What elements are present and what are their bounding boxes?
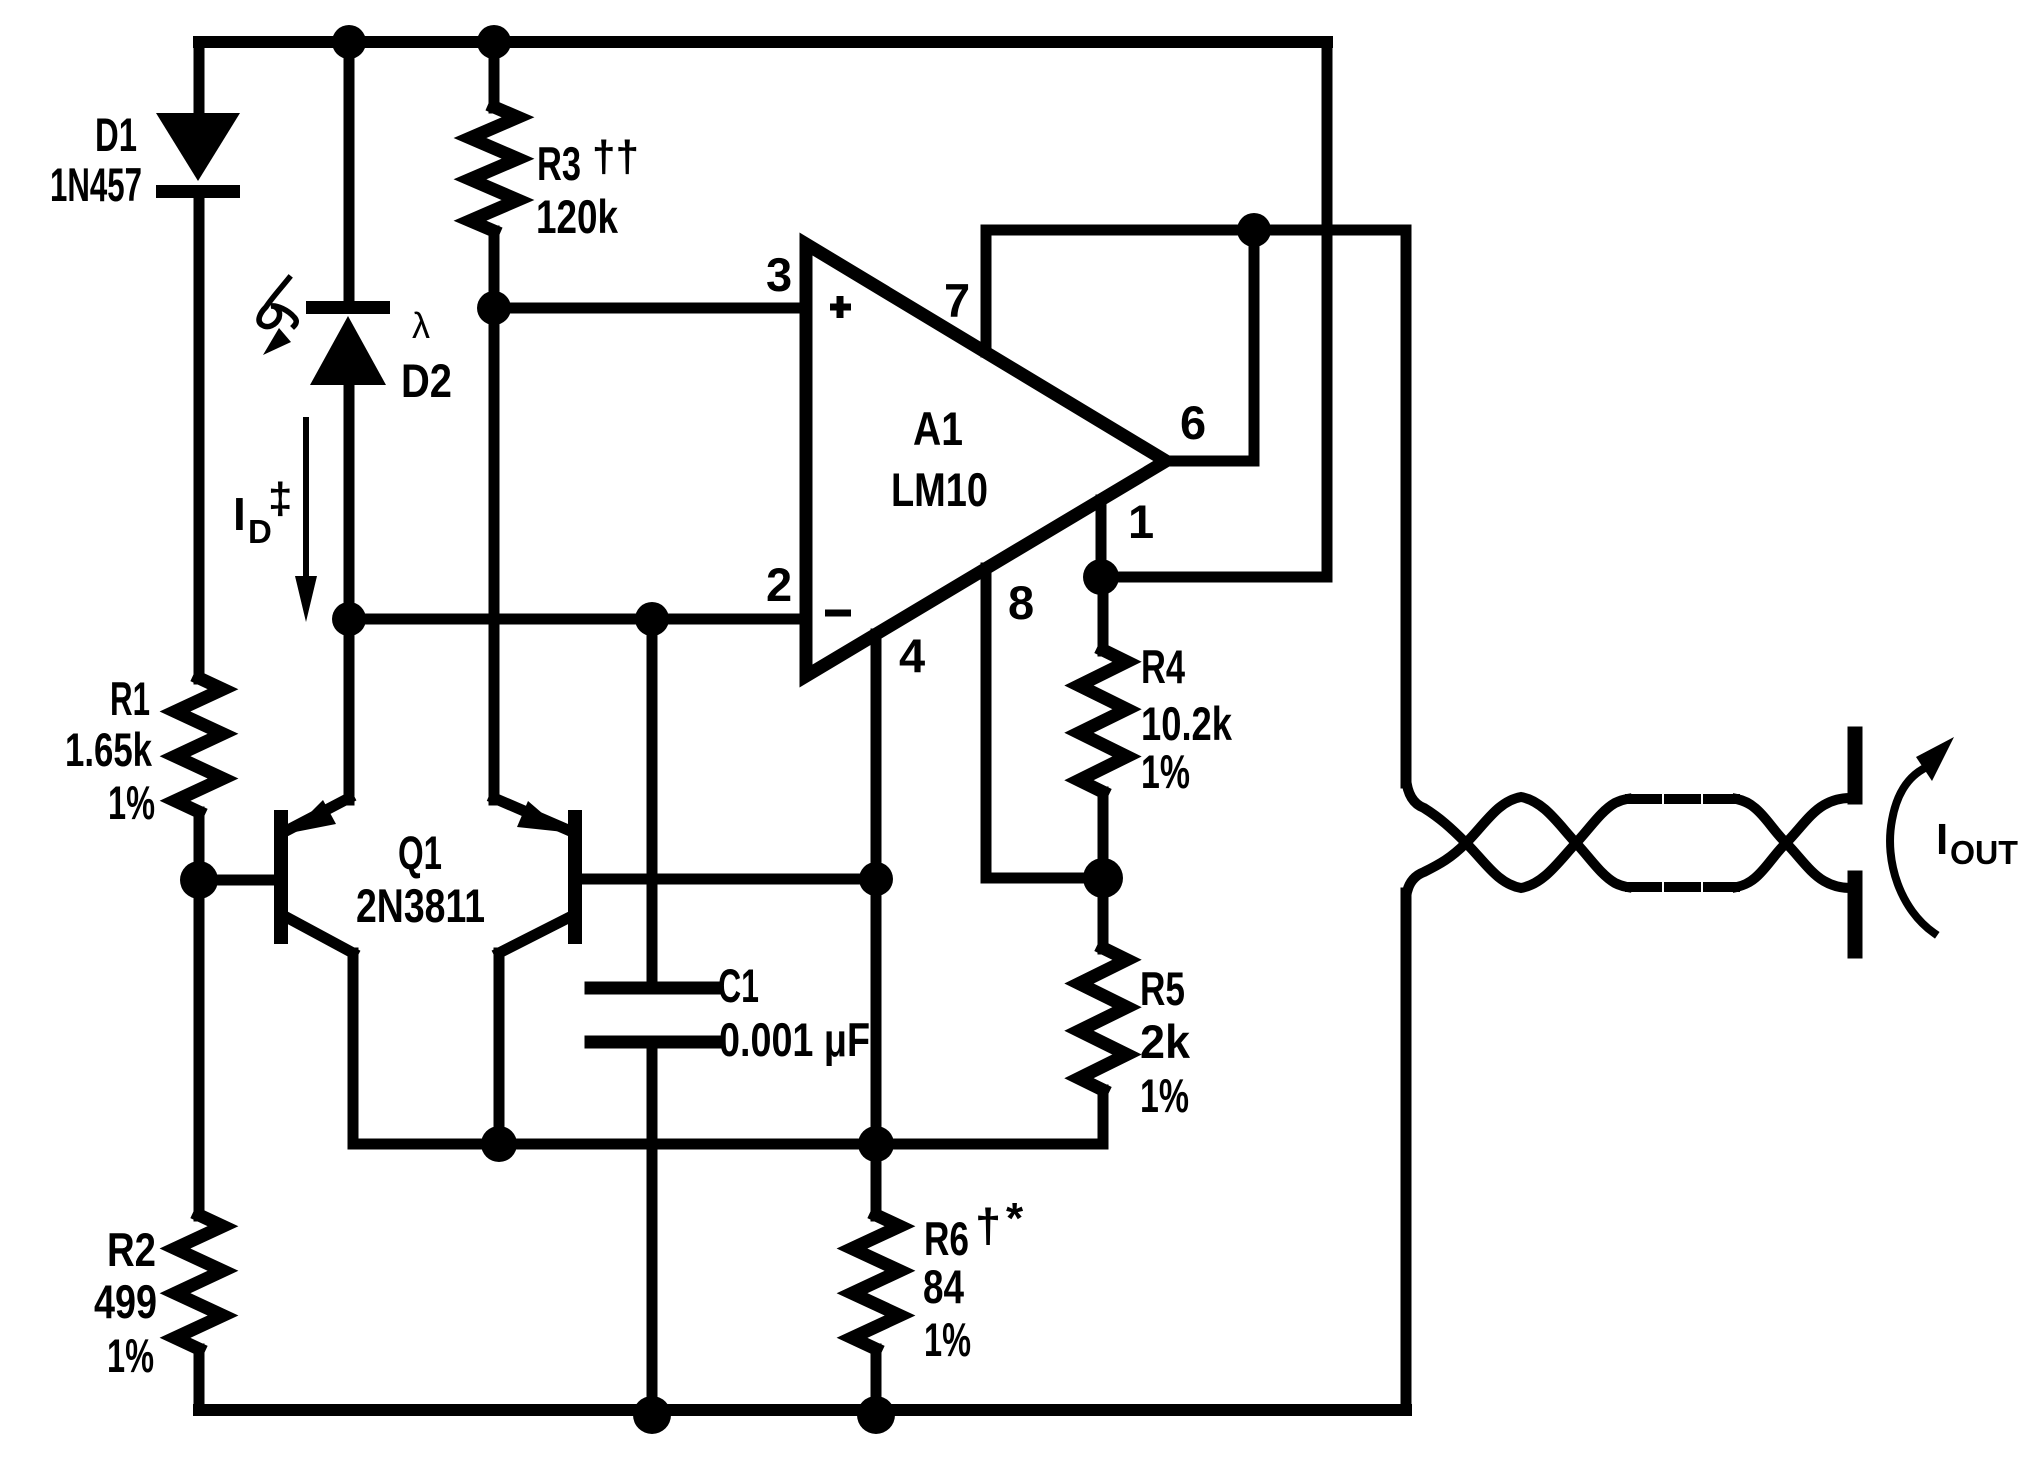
wire: Q1 left base stub: [199, 875, 274, 886]
wire: R4 top lead: [1098, 577, 1109, 651]
node: top rail / R3 branch: [477, 25, 511, 59]
svg-text:LM10: LM10: [891, 463, 988, 516]
wire: pin 6 lead from apex: [1166, 456, 1254, 467]
svg-text:R2: R2: [107, 1223, 156, 1276]
output terminal: bottom bar: [1848, 878, 1863, 951]
svg-text:I: I: [1936, 815, 1948, 864]
wire: collector bus to R5: [353, 1139, 1103, 1150]
Q1 left emitter diagonal with arrow: [288, 798, 349, 830]
wire: R4 bottom lead to pin8 node: [1098, 792, 1109, 878]
resistor R4 10.2k: [1079, 650, 1127, 792]
wire: bottom rail: [199, 1404, 1406, 1416]
wire: Q1 left collector vertical: [348, 953, 359, 1144]
node: bottom rail / R6: [857, 1396, 895, 1434]
wire: Q1 common base wire to pin-4 line: [582, 874, 876, 885]
svg-text:1%: 1%: [108, 776, 155, 829]
resistor R3 120k: [470, 107, 518, 231]
svg-text:1: 1: [1128, 495, 1154, 548]
svg-text:6: 6: [1180, 396, 1206, 449]
node: bottom rail / C1: [633, 1396, 671, 1434]
Q1 right collector diagonal: [499, 918, 568, 953]
wire: pin-3 node down to Q1 right emitter (crosses pin-2 wire): [489, 308, 500, 800]
svg-text:8: 8: [1008, 576, 1034, 629]
resistor R5 2k: [1079, 948, 1127, 1090]
wire: R5 top lead: [1098, 878, 1109, 949]
wire: R3 to pin-3 node: [489, 231, 500, 308]
wire: top supply rail: [199, 36, 1327, 48]
svg-text:OUT: OUT: [1950, 834, 2018, 871]
svg-text:499: 499: [94, 1275, 157, 1328]
wire: R5 bottom lead to collector wire: [1098, 1090, 1109, 1144]
twisted pair: conductor A (top-left to bottom-right): [1406, 778, 1627, 888]
wire: V+ rail down from top rail to pin 1 wire: [1322, 42, 1333, 577]
Q1 right emitter diagonal with arrow: [494, 798, 568, 830]
node: pin 2 / D2 anode: [332, 602, 366, 636]
svg-text:2: 2: [766, 558, 792, 611]
wire: R2 to bottom rail: [194, 1349, 205, 1410]
svg-text:C1: C1: [718, 959, 759, 1012]
node: R4 / R5 / pin 8: [1083, 858, 1123, 898]
resistor R1 1.65k: [175, 678, 223, 812]
wire: base node to R2: [194, 880, 205, 1216]
svg-text:120k: 120k: [536, 190, 619, 243]
node: top rail / D2 branch: [332, 25, 366, 59]
wire: pin 2 input wire: [349, 614, 806, 625]
svg-text:‡: ‡: [268, 474, 292, 523]
svg-text:R5: R5: [1140, 962, 1185, 1015]
capacitor C1 0.001uF: [591, 982, 716, 995]
I_OUT curved arrow: [1890, 769, 1934, 933]
node: pin 1 / R4 / V+ wire: [1083, 559, 1119, 595]
I_D current arrow: [303, 420, 309, 578]
svg-text:R1: R1: [110, 672, 150, 725]
wire: pin 4 lead down from triangle (through base node and collector node): [871, 634, 882, 1216]
wire: output return line down to bottom rail: [1401, 893, 1412, 1410]
svg-text:2k: 2k: [1140, 1015, 1191, 1068]
resistor R2 499: [175, 1215, 223, 1349]
wire: C1 branch from pin-2 wire: [647, 619, 658, 988]
svg-text:84: 84: [923, 1260, 964, 1313]
svg-text:R3: R3: [537, 137, 581, 190]
svg-text:††: ††: [592, 132, 639, 181]
svg-text:3: 3: [766, 248, 792, 301]
svg-text:1.65k: 1.65k: [65, 723, 153, 776]
twisted pair: conductor B (bottom-left to top-right): [1406, 797, 1627, 898]
wire: pin 1 lead from triangle bottom edge: [1096, 500, 1107, 577]
wire: C1 bottom to bottom rail: [647, 1042, 658, 1410]
wire: pin 8 lead down from triangle: [981, 568, 992, 878]
wire: R6 bottom lead to bottom rail: [871, 1349, 882, 1410]
wire: output line down from pin7 corner: [1401, 230, 1412, 783]
svg-text:10.2k: 10.2k: [1141, 697, 1233, 750]
wire: R3 branch from top rail: [489, 42, 500, 108]
svg-text:A1: A1: [913, 402, 963, 455]
output terminal: top bar: [1848, 734, 1863, 797]
wire: inverting node down to Q1 left emitter: [344, 619, 355, 800]
svg-text:λ: λ: [412, 305, 430, 346]
wire: Q1 right collector vertical: [494, 953, 505, 1144]
Q1 left collector diagonal: [288, 918, 353, 953]
svg-text:1%: 1%: [924, 1313, 971, 1366]
svg-text:1%: 1%: [1141, 745, 1190, 798]
svg-text:4: 4: [899, 629, 925, 682]
wire: D1 cathode to R1: [194, 197, 205, 679]
svg-text:1N457: 1N457: [50, 158, 142, 211]
svg-text:†: †: [975, 1199, 1001, 1252]
wire: D2 branch from top rail: [344, 42, 355, 303]
wire: pin 3 input wire: [494, 303, 806, 314]
photodiode D2: [306, 301, 390, 385]
svg-text:R6: R6: [924, 1212, 969, 1265]
Q1 right base bar: [568, 817, 582, 937]
svg-text:2N3811: 2N3811: [356, 879, 485, 932]
svg-text:I: I: [233, 488, 246, 540]
op-amp plus symbol: [830, 296, 851, 318]
incident light squiggle arrow at D2: [259, 278, 296, 327]
wire: pin 8 horizontal to R4/R5 node: [986, 873, 1103, 884]
svg-text:Q1: Q1: [398, 826, 442, 879]
wire: left rail top segment (to D1 anode): [194, 42, 205, 116]
node: collector bus / pin4-R6: [858, 1126, 894, 1162]
node: Q1 base / pin 4 line: [859, 862, 893, 896]
svg-text:*: *: [1006, 1194, 1024, 1243]
wire: pin 1 horizontal wire: [1101, 572, 1327, 583]
diode D1 1N457: [156, 113, 240, 198]
node: collector bus / Q1 right collector: [481, 1126, 517, 1162]
svg-text:0.001 μF: 0.001 μF: [719, 1013, 870, 1066]
svg-text:7: 7: [944, 274, 970, 327]
op-amp minus symbol: [825, 610, 851, 617]
svg-text:1%: 1%: [107, 1329, 154, 1382]
wire: pin7/output top wire to right corner: [986, 225, 1406, 236]
wire: pin 7 lead up from triangle: [981, 230, 992, 352]
resistor R6 84: [852, 1215, 900, 1349]
node: pin 7 / pin 6 junction: [1237, 213, 1271, 247]
op-amp A1 LM10 triangle: [806, 244, 1166, 676]
svg-text:D1: D1: [95, 108, 137, 161]
wire: D2 anode to inverting-input node: [344, 385, 355, 619]
wire: R1 to base node: [194, 812, 205, 880]
node: pin 2 / C1: [635, 602, 669, 636]
node: R3 / pin 3: [477, 291, 511, 325]
svg-text:D2: D2: [401, 354, 452, 407]
svg-text:1%: 1%: [1140, 1069, 1189, 1122]
transistor Q1 2N3811 dual PNP : left base bar: [274, 817, 288, 937]
node: R1 / Q1 left base: [180, 861, 218, 899]
svg-text:R4: R4: [1141, 640, 1185, 693]
wire: pin 6 vertical up to pin7 wire: [1249, 230, 1260, 461]
